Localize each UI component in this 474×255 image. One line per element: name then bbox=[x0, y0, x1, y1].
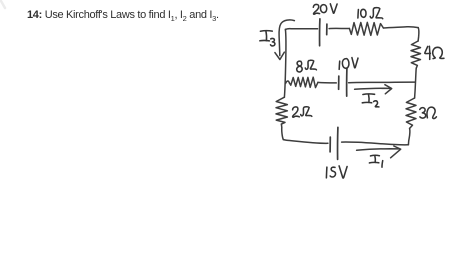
label I2 bbox=[362, 94, 379, 107]
label 10V bbox=[339, 58, 358, 70]
wire: bottom side, corner to 15V battery bbox=[342, 142, 409, 145]
current arrow I1 bbox=[357, 146, 401, 158]
current arrow I2 bbox=[355, 85, 392, 94]
wire: top-right corner down to 4-ohm bbox=[417, 28, 420, 41]
resistor 3-ohm (right bottom, vertical) bbox=[406, 98, 416, 128]
resistor 8-ohm (middle) bbox=[289, 77, 318, 87]
wire: 10-ohm to top-right corner bbox=[383, 27, 418, 28]
faint corner smudge bbox=[1, 1, 5, 8]
resistor 4-ohm (right top, vertical) bbox=[411, 41, 421, 68]
label 3-ohm bbox=[420, 107, 437, 118]
wire: 20V battery to 10-ohm resistor bbox=[329, 27, 349, 29]
current arrow I3 (curved, pointing down along left wire) bbox=[275, 20, 295, 60]
label I3 bbox=[260, 31, 275, 46]
wire: left vertical (node A top-left corner down to 2-ohm) bbox=[284, 29, 286, 97]
battery 10V (short plate left, long plate right) bbox=[339, 68, 347, 96]
label 2-ohm bbox=[293, 107, 312, 117]
wire: 8-ohm to 10V battery bbox=[318, 81, 336, 84]
wire: 10V battery to right vertical (junction node B) bbox=[349, 81, 415, 84]
resistor 10-ohm (top) bbox=[349, 22, 383, 35]
label 15V bbox=[326, 166, 347, 178]
wire: 4-ohm down to middle junction node B and on to 3-ohm bbox=[415, 68, 417, 98]
battery 15V (long plate right, short plate left) bbox=[330, 127, 338, 159]
wire: 3-ohm down to bottom-right corner bbox=[408, 128, 410, 144]
problem statement text bbox=[27, 9, 219, 21]
label 4-ohm bbox=[425, 46, 444, 59]
label I1 bbox=[369, 155, 382, 167]
wire: top side, corner to 20V battery bbox=[285, 29, 317, 30]
resistor 2-ohm (left, vertical) bbox=[276, 97, 287, 124]
wire: bottom-left corner up to 2-ohm bbox=[281, 124, 283, 140]
label 10-ohm bbox=[358, 8, 383, 19]
label 8-ohm bbox=[297, 60, 317, 72]
battery 20V (long plate left, short plate right) bbox=[320, 19, 327, 46]
wire: middle branch stub from left vertical bbox=[286, 81, 290, 83]
wire: 15V battery to bottom-left corner bbox=[283, 140, 328, 144]
label 20V bbox=[313, 4, 337, 14]
